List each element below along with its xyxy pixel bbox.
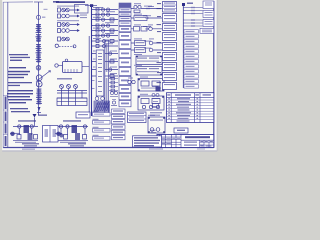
table body text: [168, 98, 198, 121]
panel box 4: [138, 96, 164, 110]
input box: [75, 5, 89, 14]
dense text speckle upper field: [93, 7, 117, 74]
margin strip cell lines: [3, 96, 8, 135]
row to relay column y29: [131, 27, 162, 32]
terminal column text: [121, 9, 130, 104]
ladder links group 1: [183, 7, 203, 15]
frame border bottom: [3, 147, 214, 149]
bottom cluster 1 caption: [18, 120, 36, 121]
table column lines: [171, 93, 200, 123]
relay column box 4: [163, 33, 177, 41]
feeder row group 1 header: [57, 6, 79, 7]
cable terminal arrow: [38, 107, 41, 111]
bottom box column: [112, 109, 126, 140]
supply label: [38, 115, 47, 116]
small circles row y82: [128, 80, 135, 83]
note text block 5: [10, 108, 30, 112]
wire bus B: [88, 36, 90, 116]
K1 output wire: [82, 66, 89, 68]
sheet right edge shadow: [217, 0, 219, 151]
PT cluster caption: [57, 78, 72, 79]
feeder row group 1: [58, 8, 80, 18]
note text block 3: [8, 82, 32, 86]
title block small text: [158, 135, 213, 146]
cluster 1 motor: [10, 132, 14, 136]
relay block K1: [63, 62, 83, 73]
table header text: [167, 94, 170, 95]
relay column labels left: [157, 3, 162, 83]
format label bottom: [22, 149, 35, 150]
relay column box 6: [163, 53, 177, 61]
bottom cluster 2 caption: [63, 120, 81, 121]
tap changer arrow of T1: [36, 71, 51, 82]
junction node: [90, 4, 93, 7]
note text block 1: [9, 54, 30, 61]
relay column box 7: [163, 63, 177, 71]
relay column box 9: [163, 83, 177, 90]
row y50: [131, 48, 162, 53]
terminal column cells: [119, 8, 131, 107]
strip D text: [106, 44, 108, 72]
relay column box 1: [163, 2, 177, 13]
sheet bottom edge shadow: [2, 149, 217, 152]
bar column: [184, 30, 199, 88]
right top column box 2: [203, 11, 214, 18]
small format box above title block: [174, 128, 188, 133]
title block left grid horizontals: [157, 137, 181, 145]
wire bus E: [182, 3, 184, 88]
bottom bars b1: [93, 113, 111, 117]
K1 left contact: [55, 64, 58, 67]
bottom bars b2: [93, 121, 111, 125]
transformer T1: [36, 75, 42, 81]
caption top center: [56, 1, 85, 3]
label Q1: [42, 17, 45, 18]
LV winding stack: [36, 89, 42, 103]
frame trim line top: [3, 1, 33, 3]
symbol row field right of bus C: [92, 8, 118, 78]
row to relay column y18: [131, 16, 162, 21]
panel box 3: [138, 79, 164, 92]
title block left grid verticals: [160, 135, 182, 148]
mid bottom box with rows: [128, 112, 147, 123]
terminal column header cell: [119, 3, 131, 7]
label C шин 10кВ: [53, 1, 59, 3]
wire bus C: [91, 6, 93, 117]
designation text: [185, 136, 210, 138]
node: 10kV feed tick: [34, 1, 43, 3]
table row lines: [167, 100, 214, 120]
bottom cluster 2: [55, 125, 88, 142]
panel box 1: [136, 56, 162, 65]
label box TSN: [76, 112, 90, 118]
sheet background: [2, 0, 217, 151]
small cluster left of table: [152, 87, 160, 108]
PT cluster: [57, 85, 87, 106]
K1 inner marks: [65, 69, 77, 73]
row y43: [131, 41, 162, 46]
link end symbol: [73, 45, 76, 48]
frame border right: [213, 1, 215, 148]
revision row above title block: [151, 130, 157, 133]
dashed link: [59, 45, 74, 47]
label near node E: [187, 3, 193, 4]
frame border left (margin strip): [7, 2, 9, 148]
symbols right of machine: [110, 91, 118, 105]
designation cell line: [181, 139, 214, 141]
title block: [157, 135, 214, 148]
CT stack TA1: [36, 45, 42, 62]
bottom notes paragraph: [133, 136, 162, 147]
right section verticals: [200, 140, 210, 147]
bottom cluster 1: [10, 125, 38, 142]
cluster 1 right box pair: [43, 126, 59, 143]
strip E text: [98, 53, 102, 54]
text strip E: [96, 50, 104, 96]
disconnector stack QS1: [36, 25, 42, 41]
note text block 2: [8, 67, 30, 78]
row to relay column y8: [131, 5, 162, 12]
junction node E: [182, 3, 185, 6]
relay column box 5: [163, 43, 177, 51]
relay column box 8: [163, 73, 177, 81]
wire bus A vertical: [38, 2, 40, 115]
right top column box 4 wide: [200, 28, 214, 33]
symbol rows lower field: [92, 77, 118, 92]
dark device left of table: [156, 87, 161, 92]
wire top link to bus C: [85, 4, 97, 6]
K1 coil bump: [65, 59, 68, 62]
bottom bars b3: [93, 129, 111, 133]
cluster 2 label below: [68, 143, 86, 144]
vertical strip D: [105, 40, 109, 114]
ladder links group 2: [183, 19, 203, 27]
bar column text: [186, 31, 195, 87]
components table: [167, 93, 214, 123]
cluster 2 transformer windings: [72, 125, 78, 133]
right top column box 1: [203, 1, 214, 9]
label near input: [80, 15, 87, 16]
cluster 2 motor: [56, 132, 60, 136]
frame trim line left: [2, 2, 4, 148]
surge arrester FV1: [36, 66, 41, 71]
machine hatch cluster: [94, 97, 110, 112]
connector labels: [143, 6, 152, 49]
right top column box 3: [203, 20, 214, 27]
bottom bars labels: [93, 111, 99, 136]
breaker Q1: [36, 15, 40, 19]
note text block 4: [7, 90, 33, 103]
panel box 2: [136, 67, 162, 76]
panel box 5 bottom: [148, 117, 165, 133]
caption above panel box 5: [150, 112, 162, 116]
cluster 1 label below: [22, 143, 39, 144]
relay column box 2: [163, 14, 177, 23]
relay column box 3: [163, 24, 177, 31]
margin strip vertical stamp text: [5, 97, 7, 110]
bottom bars b4: [93, 137, 111, 141]
feeder row group 2 header: [57, 20, 79, 21]
cluster 1 transformer windings: [24, 125, 30, 133]
pilot device: [55, 44, 58, 47]
supply arrow from TSN: [33, 114, 37, 118]
table header row: [167, 96, 214, 98]
feeder row group 3: [58, 37, 70, 41]
feeder row group 2: [58, 23, 80, 33]
scattered labels right field: [128, 3, 155, 116]
